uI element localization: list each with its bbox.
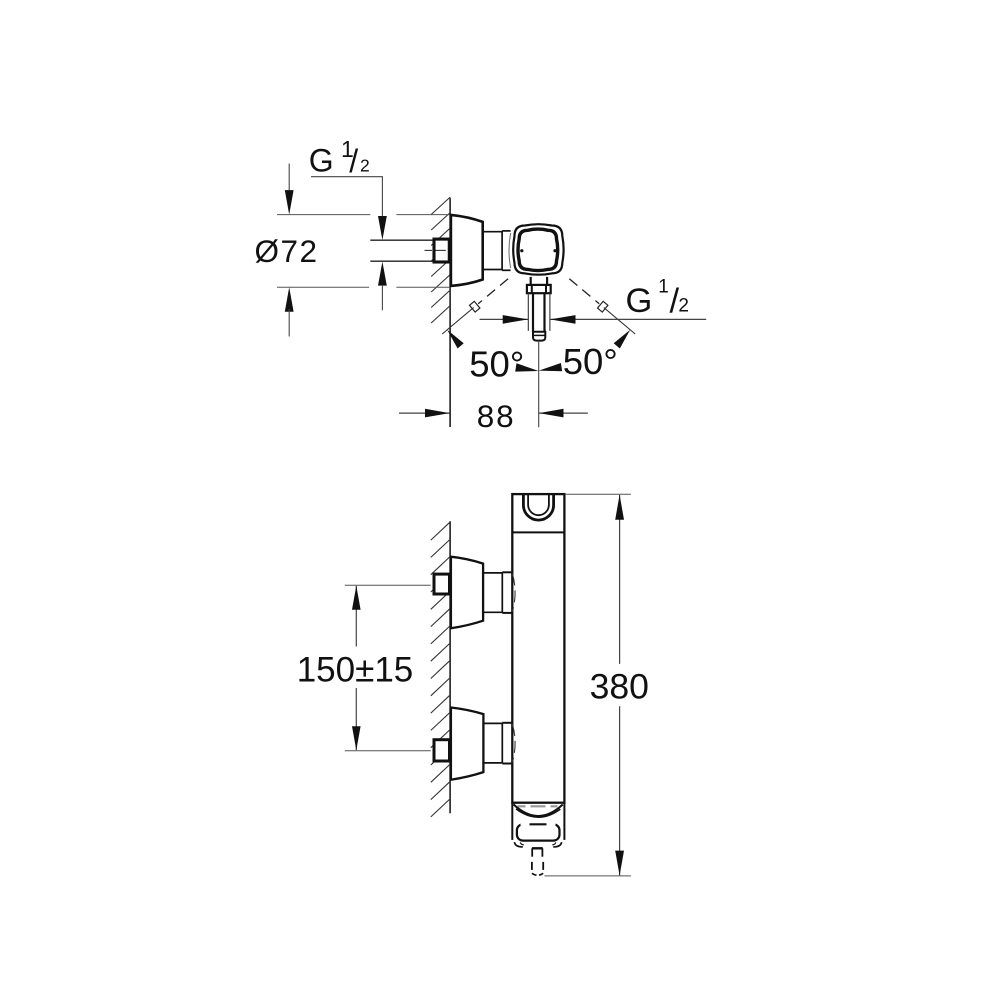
dim arrow shaft right [550,315,576,324]
upper escutcheon (side view) [451,557,483,629]
lower escutcheon (side view) [451,708,484,780]
lever collar [527,285,551,293]
dim arrow shaft left [503,315,529,324]
upper union connector [484,572,503,574]
leader G 1/2 (top) [311,177,382,218]
handle inner (top view) [518,229,558,270]
dim 150 line [355,586,357,647]
svg-text:50°: 50° [469,344,524,385]
svg-text:2: 2 [678,296,689,317]
dim line G 1/2 right [480,318,529,320]
lever end mark right [597,301,607,312]
outlet shade dashes [518,805,526,807]
dim 380 arrow bottom [615,851,624,876]
dim 88 line right [539,412,588,414]
upper wall nipple (side view) [434,574,450,594]
dim Ø72 extension line bottom [277,286,369,288]
svg-text:Ø72: Ø72 [255,233,319,269]
upper union nut arc [512,574,515,612]
outlet housing sides [511,803,513,840]
lower union nut arc [512,724,515,762]
temperature probe upper [532,847,543,849]
svg-text:G: G [626,282,653,320]
centerline (top view) [538,341,540,428]
lever shaft outer lines [527,293,529,331]
supply pipe (top view) [370,239,432,241]
dim 150 extension line top [345,584,431,586]
dim 380 line [619,495,621,664]
lever shaft [532,293,534,332]
dim 150 arrow top [352,586,361,610]
mixer body (side view) [512,494,564,803]
angle arrow center right [539,363,562,371]
svg-text:/: / [349,143,358,179]
lower union connector [484,722,502,724]
dim 380 arrow top [615,495,624,520]
dim 150 arrow bottom [352,726,361,750]
pipe dim arrow down [378,216,387,240]
wall hatching (side view) [431,522,451,540]
wall line (top view) [449,198,451,427]
nipple centerline (top view) [425,249,433,251]
svg-text:G: G [309,142,334,178]
svg-text:1: 1 [658,277,669,298]
dim 380 extension top [565,493,631,495]
handle outer (top view) [513,224,563,275]
shower hose holder U [523,495,553,521]
svg-text:2: 2 [360,156,370,176]
angle line right [604,308,635,334]
wall line (side view) [449,521,451,813]
temperature probe lower [531,862,533,873]
angle arrow right end [614,330,631,349]
lever stubs [530,277,532,285]
wall nipple square (top view) [434,239,449,262]
lever swing dashed line right [569,279,599,304]
dim Ø72 arrow top [288,164,290,195]
svg-text:380: 380 [590,667,649,707]
lower wall nipple (side view) [434,740,450,761]
body top section line [512,531,564,533]
dim 150 extension line bottom [345,750,431,752]
angle line left [442,308,473,334]
lever end mark left [469,301,479,312]
svg-text:150±15: 150±15 [297,651,414,690]
angle arrow left end [447,330,464,349]
aerator corner hook left [514,842,522,847]
outlet chrome ring arc [514,804,563,816]
escutcheon (top view) [451,215,483,286]
dim Ø72 arrow bottom [285,287,294,312]
angle arrow center left [515,363,538,371]
handle dots [520,249,523,252]
dim 380 extension bottom [545,875,631,877]
svg-text:50°: 50° [563,341,618,382]
svg-text:88: 88 [477,398,516,434]
valve body neck (top view) [484,231,502,233]
lever end cap [533,332,545,341]
pipe dim arrow up [378,262,387,286]
dim 88 line left [399,412,450,414]
lever swing dashed line left [478,279,508,304]
aerator corner hook right [553,842,561,847]
dim Ø72 extension line top [277,214,370,216]
aerator cap [517,824,560,840]
wall hatching (top view) [431,197,450,215]
